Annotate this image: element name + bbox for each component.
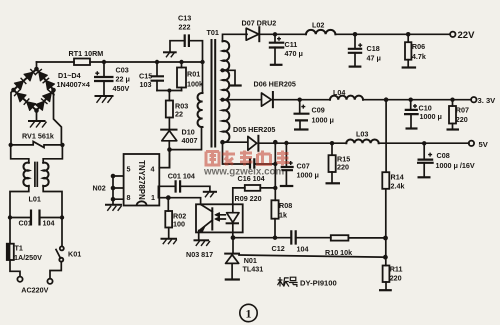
- svg-text:D07 DRU2: D07 DRU2: [242, 19, 277, 28]
- svg-text:R06: R06: [412, 42, 425, 51]
- svg-text:5V: 5V: [479, 140, 489, 149]
- svg-text:103: 103: [140, 80, 152, 89]
- svg-text:220: 220: [390, 274, 402, 283]
- svg-text:TL431: TL431: [243, 265, 264, 274]
- svg-text:RV1 561k: RV1 561k: [22, 132, 54, 141]
- svg-text:C07: C07: [297, 162, 310, 171]
- svg-text:L03: L03: [356, 130, 368, 139]
- svg-text:D06 HER205: D06 HER205: [254, 80, 296, 89]
- svg-text:T1: T1: [15, 244, 23, 253]
- svg-text:D05 HER205: D05 HER205: [233, 125, 275, 134]
- svg-text:220: 220: [337, 163, 349, 172]
- svg-text:1A/250V: 1A/250V: [14, 253, 42, 262]
- svg-text:22 μ: 22 μ: [116, 75, 130, 84]
- svg-text:R01: R01: [187, 70, 200, 79]
- svg-text:RT1 10RM: RT1 10RM: [69, 49, 104, 58]
- svg-text:1N4007×4: 1N4007×4: [57, 80, 90, 89]
- svg-text:1000 μ: 1000 μ: [312, 116, 334, 125]
- svg-text:N02: N02: [93, 184, 106, 193]
- svg-text:1: 1: [151, 193, 155, 202]
- svg-text:22: 22: [175, 110, 183, 119]
- svg-text:1000 μ: 1000 μ: [297, 171, 319, 180]
- svg-text:C12: C12: [272, 244, 285, 253]
- svg-text:C11: C11: [285, 40, 298, 49]
- svg-text:100k: 100k: [187, 80, 203, 89]
- svg-text:L01: L01: [29, 195, 41, 204]
- svg-text:N03 817: N03 817: [186, 250, 213, 259]
- svg-text:C13: C13: [178, 14, 191, 23]
- svg-text:R14: R14: [391, 173, 404, 182]
- svg-text:R11: R11: [390, 265, 403, 274]
- svg-text:4007: 4007: [182, 136, 198, 145]
- svg-text:www.gzweix.com: www.gzweix.com: [203, 167, 284, 178]
- svg-text:1000 μ: 1000 μ: [420, 112, 442, 121]
- svg-text:TNY278PN: TNY278PN: [137, 160, 146, 200]
- svg-text:470 μ: 470 μ: [285, 49, 303, 58]
- svg-text:1k: 1k: [279, 210, 287, 219]
- svg-text:C03: C03: [116, 66, 129, 75]
- svg-text:C01: C01: [19, 219, 32, 228]
- svg-text:C01 104: C01 104: [168, 171, 195, 180]
- svg-text:R07: R07: [456, 105, 469, 114]
- svg-text:1000 μ /16V: 1000 μ /16V: [436, 161, 475, 170]
- svg-text:T01: T01: [207, 28, 219, 37]
- svg-text:104: 104: [297, 245, 309, 254]
- svg-text:R09 220: R09 220: [235, 194, 262, 203]
- svg-text:1: 1: [246, 307, 252, 321]
- svg-text:5: 5: [127, 164, 131, 173]
- svg-text:450V: 450V: [113, 84, 130, 93]
- svg-text:22V: 22V: [458, 30, 476, 41]
- svg-text:47 μ: 47 μ: [367, 54, 381, 63]
- svg-text:C08: C08: [437, 151, 450, 160]
- svg-text:C18: C18: [367, 44, 380, 53]
- svg-text:AC220V: AC220V: [21, 286, 48, 295]
- svg-text:R08: R08: [279, 201, 292, 210]
- svg-text:4.7k: 4.7k: [412, 52, 426, 61]
- svg-text:D1~D4: D1~D4: [58, 71, 81, 80]
- svg-text:L04: L04: [333, 88, 345, 97]
- svg-text:DY-PI9100: DY-PI9100: [300, 279, 337, 288]
- svg-text:100: 100: [173, 220, 185, 229]
- svg-text:104: 104: [43, 219, 55, 228]
- svg-text:222: 222: [179, 23, 191, 32]
- svg-text:L02: L02: [312, 21, 324, 30]
- svg-text:220: 220: [456, 115, 468, 124]
- svg-text:4: 4: [151, 165, 155, 174]
- svg-text:2.4k: 2.4k: [391, 182, 405, 191]
- svg-text:K01: K01: [68, 250, 81, 259]
- svg-text:3. 3V: 3. 3V: [478, 96, 497, 105]
- svg-text:C09: C09: [312, 106, 325, 115]
- svg-text:8: 8: [127, 193, 131, 202]
